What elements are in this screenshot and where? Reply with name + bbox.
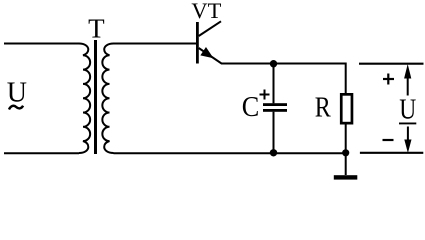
svg-text:U: U (7, 78, 27, 109)
svg-text:C: C (242, 92, 259, 123)
svg-text:R: R (315, 93, 331, 124)
svg-text:VT: VT (191, 0, 221, 23)
svg-text:U: U (399, 95, 416, 126)
svg-text:T: T (88, 14, 105, 44)
